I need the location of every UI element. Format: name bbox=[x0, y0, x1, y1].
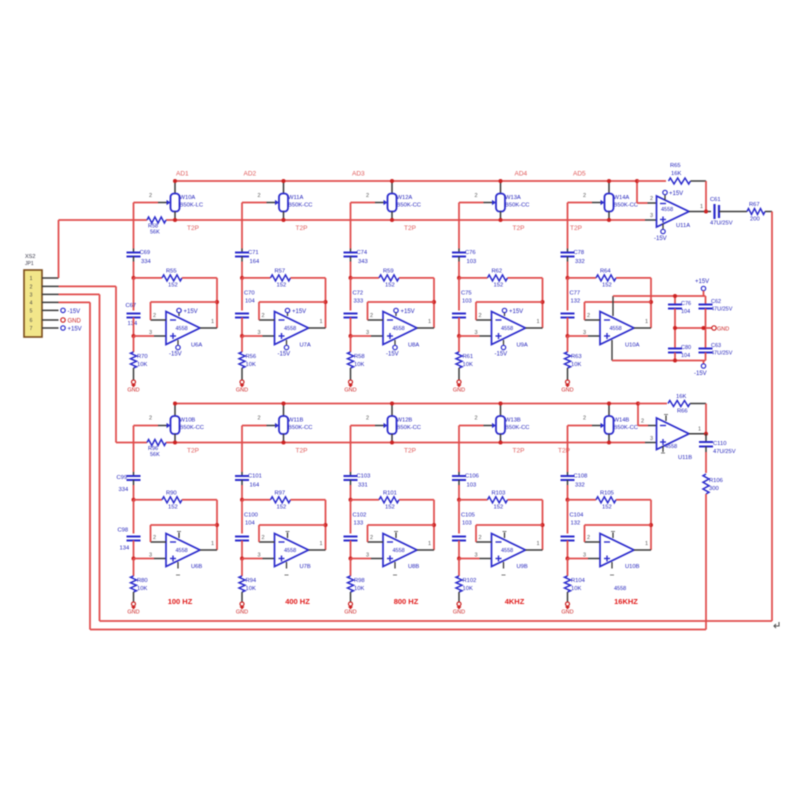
power port +15V (pin 7) bbox=[61, 326, 82, 333]
junction node A bbox=[457, 498, 461, 502]
svg-text:1: 1 bbox=[211, 541, 214, 547]
wire node B to op-amp pin 3 bbox=[568, 330, 601, 336]
potentiometer W10A B50K-LC bbox=[149, 181, 203, 220]
svg-text:W12B: W12B bbox=[397, 418, 413, 424]
wire feedback right vertical bbox=[650, 278, 652, 328]
capacitor C74 343 bbox=[344, 249, 368, 266]
potentiometer W11A B50K-CC bbox=[258, 181, 313, 220]
svg-text:2: 2 bbox=[258, 416, 261, 422]
svg-text:R90: R90 bbox=[166, 490, 177, 496]
svg-text:U11B: U11B bbox=[678, 455, 692, 461]
power -15V (op-amp) bbox=[386, 340, 399, 358]
label frequency 100 HZ bbox=[168, 597, 193, 606]
wire node A to cap2 bbox=[458, 500, 460, 534]
wire op-amp pin 2 / inner feedback bbox=[368, 302, 435, 320]
svg-text:C80: C80 bbox=[681, 345, 691, 351]
junction feedback/inner-box bbox=[541, 300, 545, 304]
wire cap1 to node A bbox=[567, 485, 569, 500]
svg-text:104: 104 bbox=[681, 309, 690, 315]
svg-text:2: 2 bbox=[262, 313, 265, 319]
connector XS2 bbox=[24, 254, 42, 337]
net label AD1 bbox=[176, 171, 189, 178]
connector pin 4 lead bbox=[42, 301, 59, 303]
wire U11A output bbox=[689, 204, 711, 212]
capacitor C80 104 bbox=[668, 328, 691, 361]
wire feedback right vertical bbox=[325, 500, 327, 550]
wire node B to op-amp pin 3 bbox=[242, 330, 275, 336]
wire wiper to chain bbox=[568, 426, 593, 473]
svg-text:4558: 4558 bbox=[501, 548, 513, 554]
wire feedback right vertical bbox=[216, 278, 218, 328]
power stub top (op-amp) bbox=[177, 532, 181, 539]
svg-text:GND: GND bbox=[561, 388, 573, 394]
svg-text:C70: C70 bbox=[244, 291, 255, 297]
power port GND (pin 6) bbox=[61, 318, 82, 325]
svg-text:W14B: W14B bbox=[614, 418, 630, 424]
junction node A bbox=[457, 276, 461, 280]
wire wiper to chain bbox=[459, 203, 484, 249]
svg-text:104: 104 bbox=[681, 353, 690, 359]
wire node A to cap2 bbox=[567, 278, 569, 311]
resistor R66 16K (U11B feedback) bbox=[638, 394, 706, 415]
svg-text:+15V: +15V bbox=[401, 309, 415, 315]
junction pot bottom bbox=[390, 218, 394, 222]
wire op-amp pin 2 / inner feedback bbox=[476, 525, 543, 542]
junction pot bottom bbox=[282, 218, 286, 222]
net label T2P (cut) bbox=[404, 225, 416, 232]
junction node B bbox=[566, 334, 570, 338]
svg-text:XS2: XS2 bbox=[25, 254, 35, 260]
wire node B to op-amp pin 3 bbox=[459, 553, 492, 559]
label frequency 4KHZ bbox=[505, 597, 525, 606]
svg-text:T2P: T2P bbox=[187, 448, 199, 455]
capacitor C63 47U/25V bbox=[699, 328, 733, 361]
wire node A to cap2 bbox=[567, 500, 569, 534]
wire R106 down to lower return bbox=[705, 494, 707, 630]
svg-text:4558: 4558 bbox=[393, 548, 405, 554]
svg-text:C77: C77 bbox=[570, 291, 581, 297]
svg-text:56K: 56K bbox=[150, 230, 160, 236]
svg-text:10K: 10K bbox=[246, 362, 256, 368]
wire pin3 to output return upper bbox=[59, 294, 100, 621]
svg-text:3: 3 bbox=[258, 330, 261, 336]
junction pot bottom bbox=[282, 441, 286, 445]
svg-text:B50K-CC: B50K-CC bbox=[614, 203, 638, 209]
junction pot bottom bbox=[607, 218, 611, 222]
svg-text:1: 1 bbox=[428, 541, 431, 547]
svg-text:C103: C103 bbox=[357, 474, 371, 480]
svg-text:GND: GND bbox=[236, 610, 248, 616]
op-amp U6A 4558 bbox=[166, 312, 202, 349]
svg-text:U8B: U8B bbox=[408, 564, 419, 570]
junction feedback/inner-box bbox=[324, 300, 328, 304]
svg-text:1: 1 bbox=[645, 319, 648, 325]
svg-text:R106: R106 bbox=[709, 478, 723, 484]
op-amp U11A 4558 bbox=[657, 196, 691, 229]
capacitor C98 134 bbox=[118, 528, 141, 552]
svg-text:3: 3 bbox=[475, 330, 478, 336]
wire wiper to chain bbox=[242, 203, 267, 249]
junction feedback/inner-box bbox=[215, 300, 219, 304]
resistor R65 16K (U11A feedback) bbox=[637, 163, 706, 184]
svg-text:U7B: U7B bbox=[300, 564, 311, 570]
wire op-amp pin 2 / inner feedback bbox=[585, 525, 652, 542]
resistor R105 152 (feedback) bbox=[568, 490, 652, 510]
svg-text:B50K-CC: B50K-CC bbox=[180, 425, 204, 431]
resistor R90 152 (feedback) bbox=[134, 490, 218, 510]
wire node B to op-amp pin 3 bbox=[459, 330, 492, 336]
wire node A to cap2 bbox=[241, 500, 243, 534]
svg-text:C69: C69 bbox=[140, 250, 151, 256]
svg-text:W11B: W11B bbox=[288, 418, 303, 424]
svg-text:2: 2 bbox=[475, 416, 478, 422]
svg-text:T2P: T2P bbox=[513, 448, 525, 455]
svg-text:4KHZ: 4KHZ bbox=[505, 597, 525, 606]
svg-text:331: 331 bbox=[358, 483, 368, 489]
power stub bottom (op-amp) bbox=[176, 562, 180, 575]
wire op-amp pin 2 / inner feedback bbox=[476, 302, 543, 320]
wire wiper to chain bbox=[568, 203, 593, 249]
wire U10A pin8 to +15V rail bbox=[613, 296, 706, 316]
svg-text:334: 334 bbox=[119, 487, 129, 493]
svg-text:152: 152 bbox=[385, 504, 395, 510]
power +15V (op-amp) bbox=[177, 308, 198, 316]
capacitor C77 132 bbox=[561, 291, 581, 318]
svg-text:3: 3 bbox=[30, 292, 33, 298]
svg-text:C62: C62 bbox=[711, 299, 721, 305]
svg-text:4558: 4558 bbox=[176, 326, 188, 332]
svg-text:R80: R80 bbox=[137, 578, 148, 584]
svg-text:C63: C63 bbox=[711, 343, 721, 349]
connector pin 1 lead bbox=[42, 277, 59, 279]
wire cap1 to node A bbox=[350, 262, 352, 278]
svg-text:2: 2 bbox=[479, 535, 482, 541]
svg-text:-15V: -15V bbox=[386, 352, 399, 358]
svg-text:4558: 4558 bbox=[176, 548, 188, 554]
svg-text:3: 3 bbox=[366, 553, 369, 559]
capacitor C71 164 bbox=[235, 249, 260, 266]
wire feedback right vertical bbox=[433, 500, 435, 550]
svg-text:T2P: T2P bbox=[296, 225, 308, 232]
svg-text:3: 3 bbox=[583, 553, 586, 559]
ground bbox=[344, 380, 356, 394]
capacitor C75 103 bbox=[452, 291, 472, 318]
svg-text:47U/25V: 47U/25V bbox=[713, 449, 736, 455]
svg-text:GND: GND bbox=[561, 610, 573, 616]
wire cap2 to node B bbox=[350, 541, 352, 559]
svg-text:AD4: AD4 bbox=[515, 171, 528, 178]
junction pot top bbox=[607, 179, 611, 183]
svg-text:132: 132 bbox=[571, 299, 581, 305]
wire pin1 to input bus bbox=[58, 220, 60, 278]
wire cap1 to node A bbox=[133, 262, 135, 278]
resistor R94 10K bbox=[239, 559, 257, 603]
wire feedback to output node bbox=[705, 181, 707, 212]
svg-text:152: 152 bbox=[168, 504, 178, 510]
svg-text:B50K-CC: B50K-CC bbox=[505, 203, 529, 209]
junction node B bbox=[132, 557, 136, 561]
op-amp U6B 4558 bbox=[166, 534, 202, 571]
wire node A to cap2 bbox=[133, 278, 135, 311]
wire C110 to R106 bbox=[705, 452, 707, 473]
svg-text:R102: R102 bbox=[463, 578, 477, 584]
svg-text:2: 2 bbox=[587, 313, 590, 319]
junction U11B output bbox=[704, 432, 708, 436]
svg-text:332: 332 bbox=[575, 259, 585, 265]
resistor R103 152 (feedback) bbox=[459, 490, 543, 510]
svg-text:133: 133 bbox=[354, 521, 364, 527]
wire node A to cap2 bbox=[241, 278, 243, 311]
resistor R61 10K bbox=[456, 336, 473, 380]
power stub top (op-amp) bbox=[286, 532, 290, 539]
svg-text:+15V: +15V bbox=[695, 279, 709, 285]
power +15V (op-amp) bbox=[502, 308, 523, 316]
power port -15V (pin 5) bbox=[61, 308, 80, 315]
svg-text:10K: 10K bbox=[463, 586, 473, 592]
wire mid GND rail bbox=[675, 327, 712, 329]
wire op-amp output bbox=[200, 319, 217, 328]
svg-text:R105: R105 bbox=[600, 490, 614, 496]
svg-text:-15V: -15V bbox=[694, 371, 707, 377]
svg-text:2: 2 bbox=[370, 535, 373, 541]
wire bottom input bus to U11B pin 3 bbox=[645, 436, 657, 443]
svg-text:10K: 10K bbox=[137, 362, 147, 368]
svg-text:4558: 4558 bbox=[284, 326, 296, 332]
svg-text:1: 1 bbox=[700, 204, 703, 210]
svg-text:2: 2 bbox=[149, 416, 152, 422]
wire op-amp output bbox=[526, 541, 543, 550]
ground bbox=[236, 380, 248, 394]
wire op-amp output bbox=[309, 319, 326, 328]
svg-text:R55: R55 bbox=[166, 268, 177, 274]
svg-text:3: 3 bbox=[149, 553, 152, 559]
wire output to right edge down bbox=[765, 212, 772, 622]
junction node A bbox=[566, 498, 570, 502]
junction feedback/inner-box bbox=[215, 523, 219, 527]
svg-text:10K: 10K bbox=[354, 362, 364, 368]
junction node B bbox=[240, 557, 244, 561]
wire bottom summing bus bbox=[175, 403, 638, 405]
wire cap1 to node A bbox=[350, 485, 352, 500]
svg-text:GND: GND bbox=[717, 327, 729, 333]
junction pot top bbox=[390, 179, 394, 183]
svg-text:2: 2 bbox=[370, 313, 373, 319]
junction pot bottom bbox=[607, 441, 611, 445]
svg-text:R64: R64 bbox=[600, 268, 611, 274]
svg-text:1: 1 bbox=[320, 319, 323, 325]
svg-text:47U/25V: 47U/25V bbox=[711, 351, 733, 357]
svg-text:C108: C108 bbox=[574, 474, 588, 480]
junction feedback/inner-box bbox=[541, 523, 545, 527]
svg-text:2: 2 bbox=[153, 535, 156, 541]
wire cap2 to node B bbox=[241, 541, 243, 559]
junction pot top bbox=[282, 179, 286, 183]
svg-text:C78: C78 bbox=[574, 250, 585, 256]
svg-text:C76: C76 bbox=[681, 301, 691, 307]
wire cap1 to node A bbox=[458, 262, 460, 278]
net label AD2 bbox=[244, 171, 257, 178]
svg-text:3: 3 bbox=[366, 330, 369, 336]
svg-text:4558: 4558 bbox=[614, 586, 626, 592]
svg-text:164: 164 bbox=[250, 483, 260, 489]
svg-text:3: 3 bbox=[583, 330, 586, 336]
svg-text:R59: R59 bbox=[383, 268, 394, 274]
svg-text:T2P: T2P bbox=[404, 448, 416, 455]
op-amp U11B 4558 bbox=[657, 418, 693, 461]
svg-text:16KHZ: 16KHZ bbox=[614, 597, 638, 606]
capacitor C76 103 bbox=[452, 249, 476, 266]
wire summing bus to U11A pin 2 bbox=[637, 181, 657, 203]
net label T2P (cut) bbox=[187, 225, 199, 232]
svg-text:C67: C67 bbox=[126, 303, 137, 309]
wire cap2 to node B bbox=[458, 318, 460, 337]
svg-text:2: 2 bbox=[30, 284, 33, 290]
svg-text:4558: 4558 bbox=[665, 444, 677, 450]
resistor R98 10K bbox=[348, 559, 365, 603]
junction pot bottom bbox=[499, 441, 503, 445]
svg-text:164: 164 bbox=[250, 259, 260, 265]
svg-text:C72: C72 bbox=[353, 291, 364, 297]
svg-text:343: 343 bbox=[358, 259, 368, 265]
wire op-amp output bbox=[417, 541, 434, 550]
potentiometer W12A B50K-CC bbox=[366, 181, 421, 220]
svg-text:-15V: -15V bbox=[68, 309, 81, 315]
capacitor C62 47U/25V bbox=[699, 296, 733, 328]
power +15V (op-amp) bbox=[285, 308, 306, 316]
wire top summing bus bbox=[175, 180, 637, 182]
svg-text:U9B: U9B bbox=[517, 564, 528, 570]
svg-text:B50K-CC: B50K-CC bbox=[288, 425, 312, 431]
wire node B to op-amp pin 3 bbox=[134, 553, 167, 559]
wire op-amp output bbox=[526, 319, 543, 328]
svg-text:56K: 56K bbox=[150, 452, 160, 458]
op-amp U10B 4558 bbox=[600, 534, 640, 593]
resistor R97 152 (feedback) bbox=[242, 490, 326, 510]
svg-text:103: 103 bbox=[467, 259, 477, 265]
junction node A bbox=[132, 276, 136, 280]
svg-text:U11A: U11A bbox=[676, 223, 690, 229]
junction U11A output bbox=[704, 210, 708, 214]
svg-text:2: 2 bbox=[153, 313, 156, 319]
svg-text:R61: R61 bbox=[463, 354, 474, 360]
svg-text:5: 5 bbox=[30, 308, 33, 314]
no-erc marker bbox=[774, 622, 779, 628]
svg-text:-15V: -15V bbox=[169, 352, 182, 358]
svg-text:R98: R98 bbox=[354, 578, 365, 584]
svg-text:3: 3 bbox=[650, 436, 653, 442]
wire input bus to U11A pin 3 bbox=[645, 213, 657, 220]
svg-text:10K: 10K bbox=[463, 362, 473, 368]
svg-text:334: 334 bbox=[141, 259, 151, 265]
wire wiper to chain bbox=[134, 426, 159, 473]
svg-text:3: 3 bbox=[650, 213, 653, 219]
junction pot top bbox=[173, 179, 177, 183]
net label T2P (cut) bbox=[187, 448, 199, 455]
wire cap2 to node B bbox=[241, 318, 243, 337]
svg-text:2: 2 bbox=[583, 416, 586, 422]
svg-text:1: 1 bbox=[698, 427, 701, 433]
wire cap2 to node B bbox=[133, 541, 135, 559]
svg-text:GND: GND bbox=[236, 388, 248, 394]
junction pot bottom bbox=[390, 441, 394, 445]
junction node A bbox=[566, 276, 570, 280]
ground bbox=[561, 602, 573, 616]
label frequency 16KHZ bbox=[614, 597, 638, 606]
svg-text:4: 4 bbox=[30, 300, 33, 306]
svg-text:4558: 4558 bbox=[393, 326, 405, 332]
svg-text:GND: GND bbox=[453, 388, 465, 394]
net label AD3 bbox=[352, 171, 365, 178]
svg-text:C102: C102 bbox=[353, 513, 367, 519]
svg-text:47U/25V: 47U/25V bbox=[710, 221, 733, 227]
capacitor C108 332 bbox=[561, 472, 588, 489]
capacitor C72 333 bbox=[344, 291, 364, 318]
svg-text:100 HZ: 100 HZ bbox=[168, 597, 193, 606]
power stub bottom (op-amp) bbox=[285, 562, 289, 575]
svg-text:C105: C105 bbox=[461, 513, 475, 519]
svg-text:W13B: W13B bbox=[505, 418, 521, 424]
svg-text:152: 152 bbox=[494, 504, 504, 510]
svg-text:47U/25V: 47U/25V bbox=[711, 307, 733, 313]
wire wiper to chain bbox=[459, 426, 484, 473]
net label T2P (cut) bbox=[558, 448, 570, 455]
wire node A to cap2 bbox=[458, 278, 460, 311]
svg-text:4558: 4558 bbox=[610, 326, 622, 332]
capacitor C106 103 bbox=[452, 472, 479, 489]
connector pin 5 lead bbox=[42, 309, 59, 311]
svg-text:B50K-CC: B50K-CC bbox=[397, 425, 421, 431]
wire cap2 to node B bbox=[458, 541, 460, 559]
svg-text:C99: C99 bbox=[117, 475, 128, 481]
power stub top (op-amp) bbox=[394, 532, 398, 539]
svg-text:1: 1 bbox=[645, 541, 648, 547]
svg-text:2: 2 bbox=[587, 535, 590, 541]
svg-text:R67: R67 bbox=[749, 202, 760, 208]
junction node B bbox=[457, 557, 461, 561]
svg-text:-15V: -15V bbox=[495, 352, 508, 358]
svg-text:GND: GND bbox=[68, 319, 82, 325]
power stub top (op-amp) bbox=[503, 532, 507, 539]
junction pot bottom bbox=[499, 218, 503, 222]
wire cap2 to node B bbox=[567, 541, 569, 559]
net label AD5 bbox=[573, 171, 586, 178]
power port +15V (supply block) bbox=[695, 279, 709, 296]
resistor R56 10K bbox=[239, 336, 256, 380]
power stub bottom (op-amp) bbox=[393, 562, 397, 575]
wire U10A pin4 to -15V rail bbox=[612, 340, 706, 361]
junction pot top bbox=[282, 402, 286, 406]
wire op-amp pin 2 / inner feedback bbox=[151, 525, 218, 542]
capacitor C100 104 bbox=[235, 513, 258, 541]
resistor R63 10K bbox=[565, 336, 582, 380]
op-amp U7A 4558 bbox=[275, 312, 311, 349]
resistor R101 152 (feedback) bbox=[351, 490, 435, 510]
svg-text:333: 333 bbox=[354, 299, 364, 305]
svg-text:B50K-CC: B50K-CC bbox=[505, 425, 529, 431]
wire cap1 to node A bbox=[458, 485, 460, 500]
wire node B to op-amp pin 3 bbox=[351, 330, 384, 336]
wire op-amp output bbox=[200, 541, 217, 550]
svg-text:103: 103 bbox=[462, 521, 472, 527]
wire cap2 to node B bbox=[567, 318, 569, 337]
wire output return lower bbox=[90, 629, 706, 631]
svg-text:16K: 16K bbox=[671, 171, 681, 177]
junction pot bottom bbox=[173, 218, 177, 222]
svg-text:152: 152 bbox=[602, 282, 612, 288]
svg-text:300: 300 bbox=[709, 486, 719, 492]
wire top input bus bbox=[59, 219, 646, 221]
power -15V (op-amp) bbox=[278, 340, 291, 358]
